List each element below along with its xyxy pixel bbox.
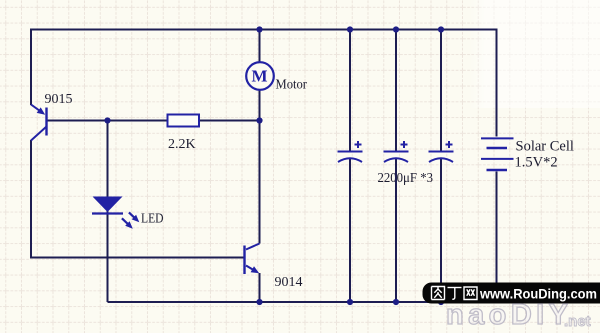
wire motor bottom lead to 9014 collector bbox=[259, 90, 261, 244]
Q2 emitter arrowhead bbox=[251, 266, 260, 273]
watermark chinese char wang bbox=[464, 287, 477, 300]
ghost watermark naoDIY.net bbox=[446, 299, 591, 331]
node dot top motor bbox=[256, 26, 262, 32]
svg-text:.net: .net bbox=[564, 313, 591, 330]
watermark chinese char rou bbox=[432, 287, 445, 300]
wire capacitor C1 column bbox=[349, 30, 351, 303]
watermark bar bbox=[423, 283, 600, 304]
node dot resistor/motor tee bbox=[256, 117, 262, 123]
wire bottom rail bbox=[108, 172, 497, 303]
svg-text:naoDIY: naoDIY bbox=[446, 299, 570, 331]
svg-text:Motor: Motor bbox=[276, 77, 308, 92]
node dot bottom C1 bbox=[347, 299, 353, 305]
wire base line 9015 to resistor bbox=[47, 120, 168, 122]
transistor Q1 9015 (PNP) bbox=[31, 105, 47, 141]
svg-text:2.2K: 2.2K bbox=[168, 137, 196, 152]
motor U1 circle bbox=[246, 62, 274, 90]
transistor Q2 9014 (NPN) bbox=[245, 244, 260, 275]
svg-text:Solar Cell: Solar Cell bbox=[516, 139, 574, 155]
svg-text:1.5V*2: 1.5V*2 bbox=[515, 155, 558, 171]
node dot bottom C3 bbox=[438, 299, 444, 305]
wire motor top lead bbox=[259, 30, 261, 63]
svg-text:9015: 9015 bbox=[45, 92, 73, 107]
LED emission arrow 1 bbox=[129, 212, 136, 218]
wire 9015 collector vertical and base row to 9014 bbox=[31, 140, 244, 258]
node dot top C3 bbox=[438, 26, 444, 32]
watermark chinese char ding bbox=[448, 288, 462, 300]
svg-text:M: M bbox=[251, 67, 267, 86]
LED emission arrow 2 bbox=[122, 218, 129, 225]
node dot base/LED tee bbox=[104, 117, 110, 123]
wire capacitor C2 column bbox=[395, 30, 397, 303]
wire capacitor C3 column bbox=[440, 30, 442, 303]
Q1 emitter arrowhead bbox=[37, 107, 46, 114]
LED D1 bbox=[93, 197, 123, 213]
svg-text:LED: LED bbox=[141, 212, 164, 227]
svg-text:9014: 9014 bbox=[275, 275, 303, 290]
wire top rail and left/right verticals bbox=[31, 30, 497, 137]
capacitor C2 bbox=[384, 141, 409, 162]
wire LED column bbox=[107, 121, 109, 303]
node dot top C2 bbox=[393, 26, 399, 32]
battery B1 solar cell bbox=[481, 138, 514, 170]
node dot bottom C2 bbox=[393, 299, 399, 305]
capacitor C3 bbox=[429, 141, 454, 162]
capacitor C1 bbox=[338, 141, 363, 162]
node dot top C1 bbox=[347, 26, 353, 32]
wire 9014 emitter vertical bbox=[259, 273, 261, 302]
resistor R1 2.2K bbox=[168, 115, 200, 127]
node dot bottom 9014 emitter bbox=[256, 299, 262, 305]
wire resistor to node B bbox=[199, 120, 260, 122]
svg-text:2200μF *3: 2200μF *3 bbox=[378, 171, 434, 186]
